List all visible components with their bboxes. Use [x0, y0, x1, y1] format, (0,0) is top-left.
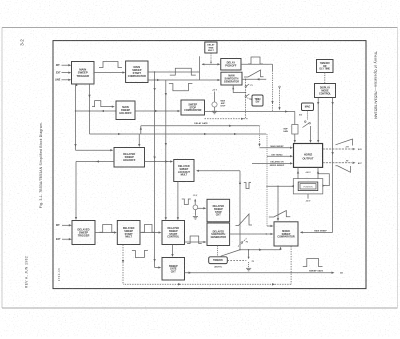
node -50V [306, 201, 311, 203]
waveform clamp bracket [182, 199, 191, 205]
wire position line drop to mixed comparator [277, 186, 279, 222]
wire pickoff output [241, 63, 273, 65]
block U11 mag switch [302, 103, 314, 111]
node label main sweep select [314, 229, 327, 232]
wire sawtooth to timediv dashed [217, 246, 219, 257]
waveform lockout bracket [244, 183, 251, 189]
resistor R1 swp gain pot [292, 112, 298, 144]
waveform output ramp plus [336, 139, 353, 146]
wire lockout feedback [196, 170, 241, 250]
wire holdoff to sweep stop comparator [135, 110, 181, 112]
wire lockout mult bottom drop [177, 182, 179, 221]
waveform delayed ramp [236, 214, 253, 226]
left caption Fig 3-1 [39, 122, 43, 208]
resistor R3 delay pot [199, 56, 201, 80]
wire holdoff to left bus [76, 110, 117, 112]
wire mag dashed drop [307, 111, 309, 120]
wire comparator upper output [148, 71, 200, 73]
waveform start pulse low [132, 251, 148, 258]
block U18 delayed sweep start control [162, 221, 185, 245]
node INT delayed input [56, 224, 72, 227]
wire bus y125 delay gate [140, 125, 260, 134]
wire mixed dashed drop [123, 246, 291, 285]
block U9 time div or dly time [317, 60, 334, 73]
wire start ckt out [140, 231, 162, 233]
node EXT input [56, 71, 71, 74]
block U10 display mode control [315, 84, 336, 98]
wire mag to output amp [309, 126, 311, 143]
page left edge [1, 28, 3, 309]
node label swp gain [283, 129, 288, 134]
wire output minus [323, 160, 363, 164]
wire sweep gate output [185, 270, 344, 275]
wire delay time mult stub to border [210, 41, 212, 42]
wire into delay pickoff [202, 63, 221, 65]
switch SW1 contacts P1 P2 [245, 84, 253, 101]
block U1 main sweep trigger [72, 62, 95, 85]
node label ext horiz [272, 154, 284, 156]
wire start control out [185, 241, 207, 243]
switch SW2b contacts P2 [238, 239, 248, 247]
wire trigger second leg [76, 84, 91, 134]
rev note [25, 256, 29, 288]
waveform gate pulse low [169, 84, 193, 91]
block U6 delay pickoff [221, 59, 241, 71]
waveform start control pulse [187, 236, 202, 244]
block U12 delayed sweep holdoff [114, 148, 145, 168]
node label delay gate [194, 122, 208, 125]
switch SW2 mag contacts [299, 115, 311, 128]
waveform start pulse [142, 225, 156, 233]
block U21 mixed sweep comparator [274, 222, 298, 246]
waveform pickoff pulse [248, 57, 263, 64]
wire gate ckt top in [171, 245, 173, 258]
wire delayed holdoff to lockout [145, 160, 174, 162]
block U22 sweep gate ckt [162, 258, 185, 281]
wire mixed comparator bottom in [240, 247, 282, 251]
switch SW4 wafer stub [278, 86, 280, 110]
right header Theory of Operation [374, 51, 378, 119]
block U15 position control [298, 182, 318, 191]
block U20 delayed sawtooth generator [207, 223, 230, 246]
block U8 time div box [252, 95, 263, 106]
waveform mixed ramp [269, 211, 291, 218]
waveform output ramp minus [336, 166, 351, 173]
wire sawtooth bottom stub [232, 85, 246, 93]
block U19 delayed sweep stop ckt [207, 199, 230, 222]
wire delayed holdoff lower left [75, 160, 114, 220]
wire comparator lower output to sawtooth gen [148, 79, 221, 81]
wire dashed control link [324, 73, 326, 84]
wire display mode left drop [317, 98, 319, 144]
wire delayed trigger out [95, 231, 117, 233]
block U14 horiz output amplifier [294, 144, 323, 168]
wire delayed or mixed feed [252, 162, 293, 164]
figure number 1743-16 [57, 268, 61, 281]
wire trigger to start comparator [94, 71, 125, 73]
wire bus y134 [90, 133, 267, 135]
page bottom edge [2, 307, 398, 309]
block U17 delayed sweep start ckt [117, 221, 140, 245]
node label main amp chop [220, 100, 226, 108]
diagram border [53, 41, 366, 289]
page number 3-2 [20, 39, 25, 46]
block U3 main sweep holdoff [116, 101, 135, 120]
wire timing switch dashed riser [245, 79, 247, 118]
wire start ckt dashed drop [122, 245, 124, 285]
wire timediv dashed right [227, 260, 246, 262]
block U7 main sawtooth generator [221, 72, 242, 85]
wire into delayed holdoff [76, 149, 114, 151]
block U23 time div both [209, 257, 228, 269]
resistor R2 position pot loop [293, 179, 323, 194]
waveform trigger pulse [99, 62, 122, 68]
switch SW3 contact P3 [248, 249, 254, 263]
wire output plus [323, 147, 363, 151]
waveform delayed trigger pulse [100, 225, 116, 233]
wire position out left [266, 185, 294, 187]
waveform sweep gate pulse [303, 259, 323, 267]
node +15V at Q1 [212, 90, 218, 92]
wire bus down x165 [165, 80, 167, 220]
wire ext horiz feed [267, 134, 293, 227]
transistor Q2 lockout clamp [193, 195, 207, 219]
node +50V [305, 172, 311, 174]
page top edge [2, 27, 398, 29]
block U16 delayed sweep trigger [72, 221, 95, 245]
wire left bus from trigger [74, 84, 76, 150]
switch SW3 diagonal to bus [221, 249, 241, 256]
transistor Q1 disconnect [212, 92, 217, 111]
wire main sweep feed [258, 126, 293, 149]
ground at Q1 [212, 111, 217, 114]
node LINE input [55, 79, 71, 82]
node EXT delayed input [56, 238, 72, 241]
wire mixed comparator select [300, 231, 333, 233]
wire gate ckt left stub [155, 266, 162, 268]
page right edge [397, 28, 399, 309]
wire position stub right [317, 167, 319, 178]
wire bus y111 to gain [205, 110, 295, 112]
wire SW3 ground stub [248, 262, 250, 268]
node label delayed or mixed sweep [270, 161, 285, 168]
wire drop to delayed holdoff [138, 134, 140, 147]
block U13 delayed sweep lockout mult [174, 160, 194, 182]
wire delay time mult wiper [210, 53, 212, 64]
wire position stub left [297, 167, 299, 178]
block U2 main sweep start comparator [126, 61, 148, 83]
node INT input [56, 64, 71, 67]
wire position loop right [318, 174, 329, 187]
wire pickoff feedback arrow [242, 78, 266, 80]
block U4 sweep stop comparator [181, 100, 205, 115]
wire display mode right drop [331, 98, 333, 233]
wire delayed sawtooth to mixed comparator [230, 233, 274, 235]
waveform holdoff pulse [92, 101, 115, 108]
wire time div dashed link [247, 98, 252, 100]
waveform main ramp [244, 70, 264, 77]
waveform gate pulse high [170, 68, 196, 75]
ground at SW3 [246, 268, 251, 271]
node label main sweep [270, 145, 284, 148]
wire pickoff corner down [271, 64, 273, 111]
wire position bottom stub [307, 194, 309, 199]
block U5 delay time mult [205, 42, 217, 53]
wire bus down x154 [153, 71, 155, 267]
wire delay gate dashed from stop comparator [205, 118, 249, 120]
